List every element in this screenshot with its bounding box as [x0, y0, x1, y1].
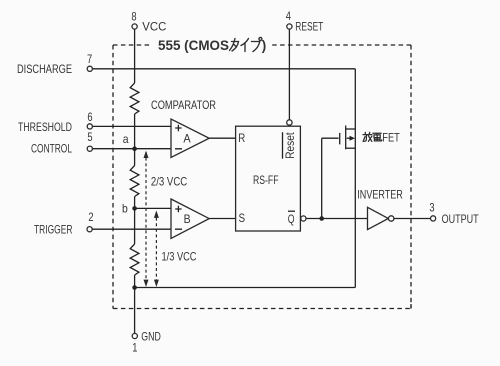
svg-text:2/3 VCC: 2/3 VCC	[151, 174, 188, 188]
svg-text:RS-FF: RS-FF	[253, 173, 279, 187]
svg-text:8: 8	[131, 9, 136, 23]
svg-text:TRIGGER: TRIGGER	[34, 223, 73, 237]
svg-text:Q: Q	[288, 212, 295, 226]
svg-text:INVERTER: INVERTER	[357, 187, 403, 201]
svg-text:3: 3	[429, 201, 434, 215]
svg-text:THRESHOLD: THRESHOLD	[18, 120, 72, 134]
svg-text:Reset: Reset	[283, 132, 297, 159]
svg-text:S: S	[239, 211, 246, 225]
svg-text:OUTPUT: OUTPUT	[442, 212, 479, 226]
svg-text:VCC: VCC	[142, 20, 166, 34]
svg-text:4: 4	[286, 9, 291, 23]
svg-text:7: 7	[87, 52, 92, 66]
svg-text:GND: GND	[141, 329, 161, 343]
svg-text:FET: FET	[382, 130, 400, 144]
svg-text:5: 5	[87, 130, 92, 144]
svg-text:DISCHARGE: DISCHARGE	[17, 62, 72, 76]
svg-text:A: A	[183, 132, 190, 146]
svg-text:RESET: RESET	[295, 20, 323, 34]
svg-text:COMPARATOR: COMPARATOR	[151, 98, 216, 112]
svg-text:): )	[262, 38, 267, 53]
svg-text:1/3 VCC: 1/3 VCC	[162, 249, 197, 263]
svg-text:555 (CMOS: 555 (CMOS	[158, 38, 229, 53]
svg-text:1: 1	[132, 341, 137, 355]
svg-text:R: R	[238, 131, 245, 145]
svg-text:a: a	[123, 132, 129, 146]
svg-text:b: b	[122, 201, 128, 215]
svg-text:2: 2	[88, 210, 93, 224]
svg-text:6: 6	[87, 110, 92, 124]
svg-text:CONTROL: CONTROL	[31, 142, 72, 156]
svg-text:B: B	[184, 212, 191, 226]
